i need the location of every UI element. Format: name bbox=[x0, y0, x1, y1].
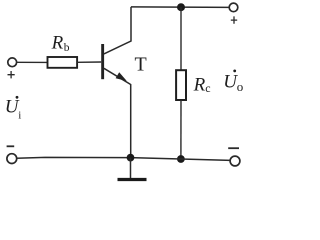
svg-text:R: R bbox=[193, 74, 206, 95]
wire input to Rb bbox=[17, 61, 48, 63]
minus sign bottom-right bbox=[228, 147, 239, 149]
svg-text:b: b bbox=[64, 42, 70, 54]
wire Rc to bottom rail bbox=[180, 100, 182, 159]
transistor T base bar bbox=[101, 44, 104, 79]
wire top node to Rc bbox=[180, 7, 182, 70]
ground bar bbox=[118, 178, 147, 181]
svg-text:R: R bbox=[51, 33, 64, 54]
svg-text:i: i bbox=[18, 110, 21, 122]
plus sign at input bbox=[8, 71, 15, 78]
ground stub wire bbox=[130, 158, 132, 179]
plus sign at output bbox=[231, 16, 237, 23]
resistor Rc bbox=[176, 70, 186, 100]
collector lead bbox=[104, 7, 131, 54]
label Ui bbox=[5, 96, 22, 122]
node: collector/Rc junction dot bbox=[177, 3, 185, 11]
label Rc bbox=[193, 74, 211, 95]
terminal (bottom-left) bbox=[7, 154, 17, 164]
minus sign bottom-left bbox=[7, 145, 15, 147]
svg-text:o: o bbox=[237, 79, 244, 94]
emitter lead bbox=[104, 68, 131, 157]
wire Rb to base bbox=[77, 61, 101, 63]
label Rb bbox=[51, 33, 70, 55]
resistor Rb bbox=[48, 57, 78, 68]
top rail wire bbox=[131, 6, 229, 9]
input terminal (top-left) bbox=[8, 58, 17, 67]
output terminal (top-right) bbox=[229, 3, 238, 12]
emitter arrow bbox=[116, 72, 127, 81]
terminal (bottom-right) bbox=[230, 156, 240, 166]
node: Rc/bottom rail junction dot bbox=[177, 155, 185, 163]
svg-text:T: T bbox=[135, 54, 147, 76]
node: emitter/bottom rail junction dot bbox=[127, 154, 135, 162]
svg-text:c: c bbox=[205, 81, 210, 95]
bottom rail wire bbox=[17, 157, 231, 160]
label Uo bbox=[223, 70, 243, 94]
